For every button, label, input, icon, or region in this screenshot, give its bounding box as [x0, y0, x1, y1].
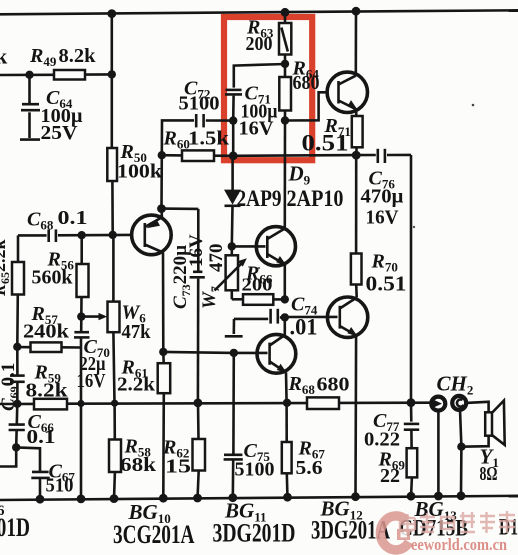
- node W6 wiper tap: [77, 312, 85, 320]
- resistor R57: [17, 342, 81, 352]
- resistor R70: [351, 155, 362, 297]
- speaker Y1: [485, 401, 505, 445]
- wire: BG10 emitter up to C72/R60 node: [160, 209, 163, 218]
- svg-text:5100: 5100: [235, 459, 275, 481]
- wire: link to C67: [16, 447, 40, 471]
- svg-text:3DG201D: 3DG201D: [213, 519, 296, 548]
- svg-text:100k: 100k: [117, 161, 163, 183]
- wire: BG-lower base line: [159, 348, 267, 357]
- svg-text:470µ: 470µ: [361, 186, 404, 208]
- resistor R60: [158, 150, 234, 208]
- resistor R68: [307, 397, 339, 409]
- svg-text:C68: C68: [27, 209, 54, 233]
- wire: R64 node to BG13 base: [285, 92, 327, 120]
- node D9 / BG11 base / W7: [228, 242, 236, 250]
- svg-text:2AP10: 2AP10: [287, 186, 344, 211]
- svg-text:0.51: 0.51: [366, 272, 407, 296]
- svg-text:W7: W7: [199, 286, 222, 309]
- svg-text:2.2k: 2.2k: [117, 374, 156, 396]
- transistor BG-lower (output, bottom middle): [257, 317, 296, 373]
- svg-text:680: 680: [317, 374, 350, 396]
- watermark chinese characters: [400, 511, 515, 535]
- potentiometer W7: [215, 246, 247, 299]
- svg-text:8Ω: 8Ω: [480, 463, 498, 485]
- resistor R50: [107, 14, 117, 236]
- transistor BG10 (PNP driver): [132, 215, 172, 255]
- svg-text:D9: D9: [288, 162, 311, 188]
- svg-text:2AP9: 2AP9: [237, 186, 282, 211]
- resistor R67: [282, 403, 292, 499]
- wire: stub to left edge: [0, 447, 16, 466]
- svg-text:0.51: 0.51: [302, 131, 349, 156]
- svg-text:R60: R60: [163, 128, 190, 152]
- wire: top supply rail: [0, 7, 518, 18]
- svg-text:3CG201A: 3CG201A: [113, 520, 195, 549]
- svg-text:201D: 201D: [0, 513, 30, 542]
- wire: R49 node to top-left: [0, 70, 116, 79]
- svg-text:8.2k: 8.2k: [26, 380, 69, 402]
- wire: BG13 collector to top rail: [354, 11, 357, 76]
- resistor R58: [109, 403, 121, 499]
- wire: output bus: [0, 398, 431, 408]
- svg-text:6: 6: [0, 503, 5, 519]
- capacitor C77: [404, 403, 419, 449]
- capacitor C66: [9, 404, 25, 448]
- wire: BG-lower emitter down to bus: [285, 372, 288, 402]
- wire: CH2 contact 2 down: [457, 410, 465, 496]
- wire: speaker bottom return: [461, 436, 488, 447]
- svg-text:5.6: 5.6: [296, 457, 323, 479]
- svg-text:16V: 16V: [366, 207, 400, 229]
- resistor R56: [77, 235, 89, 331]
- resistor R59: [34, 399, 67, 410]
- transistor BG11 (middle driver): [232, 227, 296, 266]
- potentiometer W6 wiper arrow: [81, 313, 107, 320]
- capacitor C69: [10, 347, 25, 404]
- node C74 / BG12 base / BG-lower collector: [281, 313, 289, 321]
- svg-text:680: 680: [293, 72, 320, 94]
- svg-text:560k: 560k: [32, 267, 74, 289]
- svg-text:200: 200: [246, 33, 273, 55]
- node R57 left / C69 top: [13, 343, 21, 351]
- wire: BG11 emitter down: [283, 264, 286, 299]
- ground (C74 return): [225, 319, 243, 336]
- resistor R66: [243, 294, 289, 305]
- svg-text:0.22: 0.22: [364, 429, 400, 451]
- svg-text:510: 510: [46, 475, 74, 497]
- wire: bottom ground rail: [0, 491, 518, 503]
- svg-text:0.1: 0.1: [27, 426, 56, 448]
- transistor BG13 (top right): [327, 72, 367, 112]
- svg-text:0.1: 0.1: [58, 207, 88, 229]
- resistor R71: [352, 109, 363, 155]
- node BG10 emitter / C73 / R60-C72: [157, 204, 166, 213]
- wire: R64 node down to BG11 collector: [283, 121, 286, 228]
- wire: R56/C70 column down to rail: [77, 348, 84, 499]
- wire: BG10 collector down to R61 node: [162, 253, 165, 352]
- capacitor C71: [225, 64, 285, 156]
- potentiometer W6 body: [108, 235, 120, 403]
- resistor R61: [158, 352, 171, 499]
- resistor R49: [54, 70, 85, 80]
- wire: BG10 base line: [18, 231, 132, 240]
- svg-text:k: k: [0, 44, 8, 69]
- capacitor C67: [31, 472, 49, 499]
- capacitor C70: [74, 332, 90, 347]
- wire: BG12 emitter down to rail: [354, 335, 357, 498]
- svg-text:47k: 47k: [122, 321, 152, 343]
- svg-text:R49: R49: [29, 45, 57, 69]
- diode D9: [224, 156, 241, 247]
- resistor R63: [279, 12, 291, 68]
- capacitor C76 (output electrolytic): [378, 149, 411, 163]
- resistor R69: [407, 448, 418, 497]
- transistor BG12 (right output): [327, 297, 367, 337]
- capacitor C74: [234, 309, 285, 324]
- scan specks: [472, 104, 475, 107]
- wire: left column down from C68: [17, 235, 20, 262]
- capacitor C73 (bootstrap): [162, 209, 205, 403]
- svg-text:CH2: CH2: [437, 372, 474, 398]
- svg-text:5100: 5100: [179, 93, 220, 115]
- capacitor C72: [162, 114, 233, 155]
- red highlight rectangle: [224, 17, 312, 160]
- svg-text:R68: R68: [288, 373, 316, 397]
- capacitor C68: [49, 229, 56, 242]
- svg-text:16V: 16V: [186, 234, 207, 267]
- jack CH2 contact 1: [431, 397, 445, 498]
- wire: C76 right lead down to output bus: [410, 155, 413, 403]
- capacitor C64: [20, 75, 40, 140]
- capacitor C75: [224, 353, 243, 499]
- svg-text:eeworld.com.cn: eeworld.com.cn: [411, 535, 507, 554]
- svg-text:200: 200: [242, 275, 273, 295]
- svg-text:1.5k: 1.5k: [188, 128, 230, 150]
- jack CH2 contact 2: [452, 396, 466, 410]
- svg-text:68k: 68k: [120, 454, 157, 476]
- node C66/C67 junction: [12, 443, 20, 451]
- svg-text:25V: 25V: [41, 122, 79, 144]
- svg-text:16V: 16V: [239, 118, 275, 140]
- svg-text:R652.2k: R652.2k: [0, 239, 12, 297]
- svg-text:15: 15: [165, 456, 191, 478]
- resistor R62: [193, 403, 206, 499]
- wire: amplifier mid-point node: [229, 151, 376, 161]
- watermark logo circle: [380, 516, 410, 550]
- wire: node to BG12 base: [285, 316, 338, 319]
- svg-text:240k: 240k: [23, 321, 70, 343]
- wire: CH2 to speaker top: [466, 402, 489, 413]
- svg-text:8.2k: 8.2k: [59, 45, 97, 67]
- resistor R65 (left edge, label cut): [12, 262, 24, 295]
- resistor R64: [279, 64, 291, 125]
- svg-text:470: 470: [206, 244, 227, 273]
- svg-text:22: 22: [380, 465, 400, 487]
